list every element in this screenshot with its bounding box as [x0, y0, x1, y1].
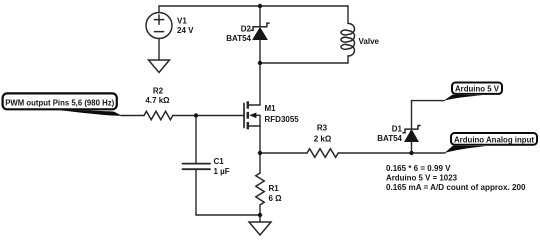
wire source to node	[259, 126, 261, 153]
svg-text:D2: D2	[241, 25, 252, 34]
wire V1 bottom stub	[158, 39, 160, 61]
wire PWM to R2	[121, 115, 144, 117]
label D2 value	[226, 25, 251, 44]
wire valve top stub	[347, 6, 349, 23]
wire valve bottom stub	[347, 56, 349, 63]
wire R3 to analog callout	[338, 152, 445, 154]
transistor M1 gate bar	[243, 104, 245, 128]
svg-text:V1: V1	[177, 17, 187, 26]
wire D2 anode to node	[259, 40, 261, 64]
ground below V1	[149, 60, 170, 73]
svg-text:BAT54: BAT54	[377, 134, 402, 143]
wire V1 top stub	[158, 6, 160, 13]
capacitor C1 plates	[183, 164, 211, 170]
node: top rail / D2 junction	[258, 4, 262, 8]
svg-text:6 Ω: 6 Ω	[269, 194, 283, 203]
wire valve bottom rail	[260, 62, 348, 64]
resistor R1	[256, 173, 264, 205]
resistor R2	[144, 111, 173, 119]
svg-text:C1: C1	[214, 157, 225, 166]
ground bottom	[249, 222, 271, 235]
svg-text:Valve: Valve	[359, 37, 380, 46]
note text block	[386, 163, 526, 192]
svg-text:RFD3055: RFD3055	[265, 115, 300, 124]
svg-text:PWM output Pins 5,6 (980 Hz): PWM output Pins 5,6 (980 Hz)	[5, 98, 114, 108]
label D1 value	[377, 125, 402, 144]
wire C1 to R1 bottom node	[196, 214, 260, 216]
node: C1 / R1 / ground junction	[258, 213, 262, 217]
callout PWM output Pins 5,6 (980 Hz)	[3, 93, 122, 116]
svg-text:24 V: 24 V	[177, 26, 194, 35]
label C1 value	[214, 157, 230, 176]
svg-text:4.7 kΩ: 4.7 kΩ	[145, 96, 170, 105]
capacitor C1 wire top	[195, 116, 197, 164]
node: drain / valve junction	[258, 61, 262, 65]
capacitor C1 wire bottom	[195, 169, 197, 215]
wire D1 cathode riser	[411, 101, 413, 129]
label M1 value	[265, 104, 300, 124]
voltage source V1	[146, 13, 172, 39]
wire R2 to gate	[173, 115, 244, 117]
wire top rail	[159, 5, 348, 7]
svg-text:R1: R1	[269, 184, 280, 193]
wire R1 bottom	[259, 205, 261, 222]
wire source node to R3	[260, 152, 307, 154]
wire D1 anode stub	[411, 142, 413, 154]
svg-text:R3: R3	[317, 124, 328, 133]
wire drain riser	[259, 63, 261, 105]
svg-text:M1: M1	[265, 104, 277, 113]
svg-text:0.165 * 6 = 0.99 V: 0.165 * 6 = 0.99 V	[386, 163, 451, 173]
transistor M1 leads	[248, 104, 260, 106]
label R2 value	[145, 87, 170, 106]
svg-text:1 µF: 1 µF	[214, 167, 230, 176]
label R3 value	[314, 124, 332, 144]
svg-text:2 kΩ: 2 kΩ	[314, 135, 332, 144]
transistor M1 channel bars	[247, 101, 250, 129]
inductor Valve	[341, 23, 355, 56]
node: source / R3 / R1 junction	[258, 151, 262, 155]
diode D2 (BAT54)	[250, 23, 269, 39]
svg-text:D1: D1	[392, 125, 403, 134]
diode D1 (BAT54)	[402, 126, 420, 142]
label V1 value	[177, 17, 194, 36]
wire D2 top branch	[259, 6, 261, 27]
wire D1 to 5V callout	[412, 100, 445, 102]
node: D1 / analog input junction	[409, 151, 413, 155]
svg-text:Arduino 5 V = 1023: Arduino 5 V = 1023	[386, 172, 457, 182]
transistor M1 body arrow	[249, 113, 256, 119]
svg-text:Arduino Analog input: Arduino Analog input	[454, 134, 534, 144]
wire R1 top	[259, 153, 261, 173]
callout Arduino Analog input	[445, 133, 538, 153]
node: gate / C1 junction	[194, 113, 198, 117]
svg-text:Arduino 5 V: Arduino 5 V	[455, 84, 499, 94]
svg-text:R2: R2	[153, 87, 164, 96]
svg-text:BAT54: BAT54	[226, 34, 251, 43]
label R1 value	[269, 184, 283, 203]
svg-text:0.165 mA = A/D count of approx: 0.165 mA = A/D count of approx. 200	[386, 182, 526, 192]
callout Arduino 5 V	[444, 83, 503, 101]
resistor R3	[307, 149, 338, 158]
